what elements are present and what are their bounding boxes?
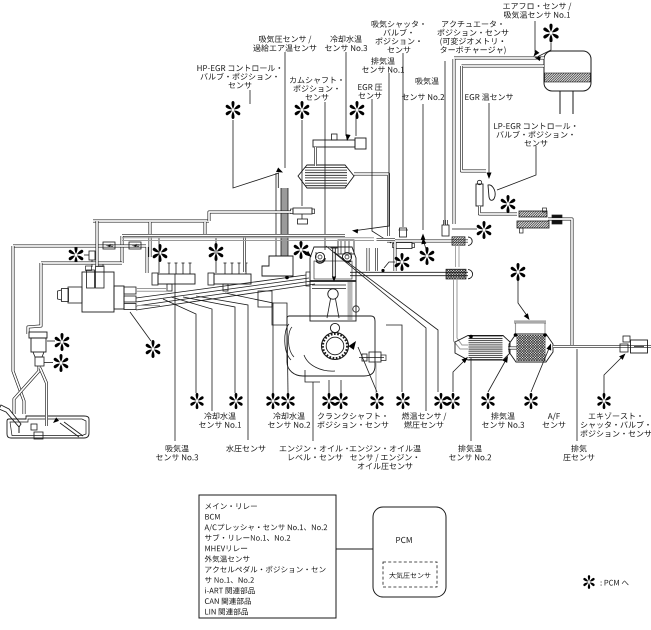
label: エキゾースト・ / シャッタ・バルブ・ / ポジション・センサ	[581, 412, 651, 437]
exhaust shutter leader	[604, 355, 624, 393]
pump sensor stub + asterisk	[84, 254, 89, 256]
asterisk marker (PCM sensor)	[583, 575, 594, 589]
intake elbow pipe with flex bellows	[387, 240, 468, 243]
intake air temp No.2 leader	[422, 104, 424, 230]
asterisk marker (PCM sensor)	[226, 101, 241, 119]
DPF differential pressure pipes	[515, 323, 517, 334]
pipe joining the two bellows	[455, 245, 457, 267]
asterisk marker (PCM sensor)	[434, 393, 447, 409]
exhaust temp No.1 leader	[356, 73, 389, 231]
exhaust temp No.2 leader	[470, 358, 472, 441]
air intake duct pipes	[454, 57, 544, 60]
vacuum solenoid valve	[291, 208, 315, 224]
intake air temp No.3 leader	[174, 274, 176, 441]
cooler outlet pipe down to exhaust	[548, 219, 572, 345]
exhaust manifold block	[338, 240, 354, 254]
airflow sensor leader	[534, 21, 536, 52]
duct branch to LP-EGR valve	[462, 66, 487, 171]
legend to PCM connector	[336, 548, 373, 550]
asterisk marker (PCM sensor)	[153, 244, 168, 262]
asterisk marker (PCM sensor)	[55, 333, 70, 351]
label: EGR 温センサ	[465, 93, 513, 100]
intake runner bank 1	[152, 263, 195, 291]
label: 燃温センサ / / 燃圧センサ	[402, 412, 447, 428]
crankcase	[285, 316, 375, 376]
label: エアフロ・センサ / / 吸気温センサ No.1	[503, 3, 571, 19]
exhaust pipe to shutter valve	[553, 345, 651, 348]
oil cooler asterisk leaders	[47, 340, 55, 342]
gray hose pump to bank1	[136, 288, 168, 290]
HP-EGR valve	[313, 134, 366, 149]
check valve inline 1	[103, 242, 115, 249]
check valve inline 2	[129, 242, 141, 249]
oil cooler return downpipe into pan	[40, 368, 47, 426]
pipe to oil cooler	[41, 262, 122, 265]
downpipe from intercooler to head (gray)	[281, 188, 288, 256]
label: 排気温 / センサ No.3	[482, 412, 524, 428]
DPF (diesel particulate filter)	[509, 334, 553, 362]
boost pressure sensor leader	[284, 52, 286, 168]
label: 吸気温	[416, 77, 439, 84]
asterisk leader to air duct	[538, 43, 551, 57]
exhaust temp No.3 leader	[488, 358, 507, 392]
injector	[332, 248, 334, 277]
exhaust downpipe to catalyst (gray)	[454, 278, 469, 349]
vacuum solenoid leader	[301, 120, 303, 206]
HP-EGR label tail	[249, 90, 251, 104]
gray hose pump lower	[136, 305, 160, 307]
pipe beside downpipe	[275, 173, 277, 256]
EGR pressure valve leader tail	[355, 118, 357, 136]
LP-EGR valve	[476, 180, 495, 206]
EGR temp sensor asterisk line	[452, 228, 477, 230]
label: 冷却水温 / センサ No.2	[268, 412, 310, 428]
label: 排気 / 圧センサ	[563, 445, 594, 461]
asterisk marker (PCM sensor)	[446, 393, 459, 409]
catalyst to DPF pipe	[508, 347, 517, 350]
intake shutter solenoid leader	[402, 53, 404, 227]
air cleaner outlet legs	[559, 91, 561, 114]
EGR pressure solenoid	[393, 243, 415, 249]
engine cylinder head and valve cover	[310, 247, 356, 281]
exhaust pressure sensor leader	[576, 349, 578, 441]
barometric pressure sensor (dashed box)	[383, 562, 437, 587]
asterisk marker (PCM sensor)	[370, 393, 383, 409]
charge pipe to intake elbow	[354, 174, 389, 236]
actuator position sensor leader	[444, 61, 446, 224]
fuel rail leader (to asterisk pair)	[334, 252, 438, 392]
asterisk marker (PCM sensor)	[266, 393, 279, 409]
pipe sensor pointer	[424, 241, 427, 249]
pipe down to runner bank 1	[146, 247, 149, 273]
fuel line to lower-left sensor	[130, 312, 151, 341]
oil pressure sensor fitting on block	[359, 352, 386, 362]
asterisk marker (PCM sensor)	[395, 253, 410, 271]
left long vertical pipe to oil pan	[96, 221, 99, 266]
asterisk marker (PCM sensor)	[295, 101, 310, 119]
branch down to runner bank 2	[243, 235, 246, 272]
label: 吸気温 / センサ No.3	[156, 445, 198, 461]
HP-EGR valve pipe down to cooler	[314, 147, 317, 166]
oil temp/pressure leader	[386, 325, 402, 392]
middle loop pipe	[122, 234, 245, 237]
camshaft asterisk pointer	[305, 252, 309, 255]
camshaft label leader	[324, 102, 326, 250]
valve-to-cooler pipe	[480, 206, 518, 214]
asterisk marker (PCM sensor)	[524, 393, 537, 409]
LP-EGR cooler	[517, 208, 562, 233]
EGR pressure sensor leader	[372, 99, 391, 243]
asterisk marker (PCM sensor)	[543, 24, 558, 43]
label: HP-EGR コントロール・ / バルブ・ポジション・ / センサ	[197, 65, 280, 89]
A/F sensor leader	[531, 346, 550, 392]
head left mount block	[262, 256, 293, 276]
catalyst inlet pointer	[453, 359, 466, 392]
head inner detail	[314, 261, 352, 279]
air cleaner	[544, 51, 591, 91]
asterisk marker (PCM sensor)	[477, 221, 492, 239]
crankshaft sensor leader with bold arrow	[358, 347, 377, 392]
label: アクチュエータ・ / ポジション・センサ / (可変ジオメトリ・ / ターボチャージャ)	[438, 21, 509, 55]
coolant temp No.3 leader	[345, 52, 347, 136]
vacuum pipe upper loop	[93, 220, 209, 223]
exhaust shutter valve	[620, 336, 648, 353]
fuel lines fan to injectors	[136, 275, 306, 298]
label: 水圧センサ	[226, 445, 265, 452]
intake shutter fitting	[399, 228, 409, 237]
label: カムシャフト・ / ポジション・ / センサ	[290, 77, 342, 101]
crank gear	[304, 323, 349, 371]
label: LP-EGR コントロール・ / バルブ・ポジション・ / センサ	[494, 123, 575, 147]
left long horizontal pipe	[13, 245, 146, 248]
label: エンジン・オイル温 / センサ / エンジン・ / オイル圧センサ	[350, 445, 421, 470]
label: 排気温 / センサ No.1	[362, 57, 404, 73]
asterisk marker (PCM sensor)	[146, 340, 161, 358]
label: EGR 圧 / センサ	[358, 84, 382, 99]
oil cooler return pipe crossover	[14, 366, 39, 414]
knock sensor boss	[353, 306, 359, 312]
oil level sensor drain and leader	[305, 370, 320, 382]
intake runner bank 2	[208, 263, 251, 291]
left pipe down with crossover	[13, 246, 24, 414]
label: センサ No.2	[402, 94, 444, 101]
oil fitting gray lead	[375, 363, 377, 393]
vacuum pipe to engine head	[209, 234, 345, 237]
asterisk marker (PCM sensor)	[229, 393, 242, 409]
head gasket line	[310, 280, 356, 282]
label: 吸気シャッタ・ / バルブ・ / ポジション・ / センサ	[372, 20, 424, 53]
LP-EGR return pipe (down from air duct)	[453, 59, 456, 224]
pipe riser to solenoid line	[209, 212, 291, 221]
engine mount bracket left	[258, 291, 287, 325]
oil dipstick	[0, 405, 21, 433]
asterisk leader lines up into engine	[163, 299, 196, 393]
asterisk marker (PCM sensor)	[481, 393, 494, 409]
LP-EGR label leader	[497, 146, 536, 190]
asterisk marker (PCM sensor)	[54, 354, 69, 372]
label: 排気温 / センサ No.2	[449, 445, 491, 461]
label: 吸気圧センサ / / 過給エア温センサ	[253, 35, 316, 51]
label: クランクシャフト・ / ポジション・センサ	[318, 413, 389, 429]
asterisk marker (PCM sensor)	[501, 195, 516, 213]
EGR temp sensor leader	[488, 103, 490, 173]
asterisk marker (PCM sensor)	[350, 101, 365, 119]
intake air temp sensor No.2 body	[442, 220, 449, 236]
asterisk marker (PCM sensor)	[294, 241, 309, 259]
exhaust manifold pipes	[367, 248, 370, 271]
DPF pressure sensor leader	[518, 280, 528, 317]
asterisk marker (PCM sensor)	[69, 246, 84, 264]
asterisk marker (PCM sensor)	[209, 243, 224, 261]
asterisk marker (PCM sensor)	[597, 393, 610, 409]
PCM box	[373, 507, 446, 597]
asterisk marker (PCM sensor)	[334, 393, 347, 409]
HP-EGR asterisk leader diagonal	[233, 120, 279, 188]
asterisk marker (PCM sensor)	[396, 393, 409, 409]
engine oil cooler	[29, 332, 47, 366]
charge air cooler (intercooler)	[298, 165, 354, 188]
asterisk marker (PCM sensor)	[281, 393, 294, 409]
oil sensor pointer	[384, 262, 395, 268]
label: A/F / センサ	[543, 413, 566, 429]
exhaust elbow pipe with flex bellows	[350, 272, 468, 276]
high pressure fuel pump	[58, 262, 137, 312]
fuel rail leader (to fuel temp/pressure label)	[326, 246, 426, 411]
long gray hose to engine	[122, 237, 374, 239]
oil pan	[7, 416, 89, 439]
asterisk marker (PCM sensor)	[322, 393, 335, 409]
asterisk marker (PCM sensor)	[420, 247, 435, 265]
asterisk marker (PCM sensor)	[511, 263, 526, 281]
cylinder block	[306, 272, 356, 321]
upper loop right end bend	[204, 222, 207, 235]
catalytic converter	[455, 336, 510, 361]
branch from upper loop	[149, 222, 152, 257]
label: エンジン・オイル・ / レベル・センサ	[280, 445, 348, 461]
label: 冷却水温 / センサ No.1	[199, 412, 241, 428]
legend box (non-illustrated PCM parts)	[199, 495, 336, 618]
asterisk marker (PCM sensor)	[190, 393, 203, 409]
label: 冷却水温 / センサ No.3	[325, 35, 367, 51]
runner bank asterisk lines	[158, 238, 160, 273]
